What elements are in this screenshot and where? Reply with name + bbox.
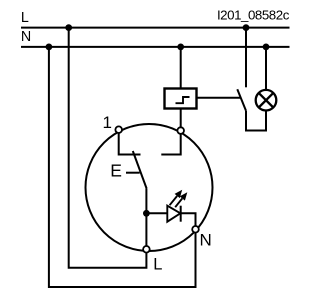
svg-text:E: E	[110, 161, 122, 181]
svg-text:I201_08582c: I201_08582c	[217, 8, 290, 23]
svg-text:1: 1	[103, 113, 112, 132]
svg-text:N: N	[200, 231, 212, 250]
svg-text:L: L	[153, 256, 162, 274]
svg-text:L: L	[21, 10, 29, 26]
svg-text:N: N	[21, 29, 31, 45]
